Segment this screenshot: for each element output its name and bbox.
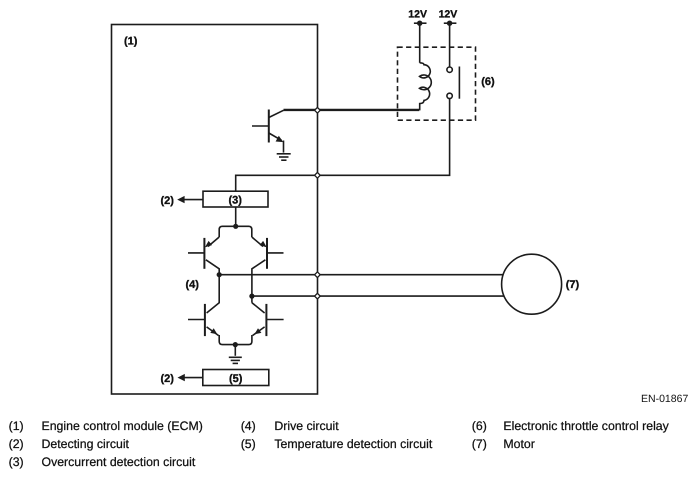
svg-text:(6): (6) bbox=[472, 419, 487, 433]
svg-text:(3): (3) bbox=[9, 455, 24, 469]
svg-text:(4): (4) bbox=[186, 279, 200, 291]
svg-text:(6): (6) bbox=[481, 76, 495, 88]
svg-text:Engine control module (ECM): Engine control module (ECM) bbox=[42, 419, 203, 433]
svg-text:(2): (2) bbox=[161, 195, 175, 207]
svg-text:(2): (2) bbox=[161, 373, 175, 385]
svg-text:(2): (2) bbox=[9, 437, 24, 451]
svg-text:EN-01867: EN-01867 bbox=[641, 393, 688, 405]
svg-text:Motor: Motor bbox=[503, 437, 534, 451]
svg-text:12V: 12V bbox=[439, 9, 458, 21]
svg-text:(5): (5) bbox=[229, 373, 243, 385]
svg-text:Overcurrent detection circuit: Overcurrent detection circuit bbox=[42, 455, 196, 469]
svg-text:(5): (5) bbox=[241, 437, 256, 451]
svg-text:Detecting circuit: Detecting circuit bbox=[42, 437, 130, 451]
svg-text:(3): (3) bbox=[229, 195, 243, 207]
svg-text:(7): (7) bbox=[566, 279, 580, 291]
svg-text:(7): (7) bbox=[472, 437, 487, 451]
svg-text:(1): (1) bbox=[9, 419, 24, 433]
svg-text:(4): (4) bbox=[241, 419, 256, 433]
svg-text:Drive circuit: Drive circuit bbox=[274, 419, 339, 433]
svg-text:(1): (1) bbox=[124, 35, 138, 47]
svg-text:Electronic throttle control re: Electronic throttle control relay bbox=[503, 419, 669, 433]
svg-text:Temperature detection circuit: Temperature detection circuit bbox=[274, 437, 432, 451]
svg-text:12V: 12V bbox=[408, 9, 427, 21]
